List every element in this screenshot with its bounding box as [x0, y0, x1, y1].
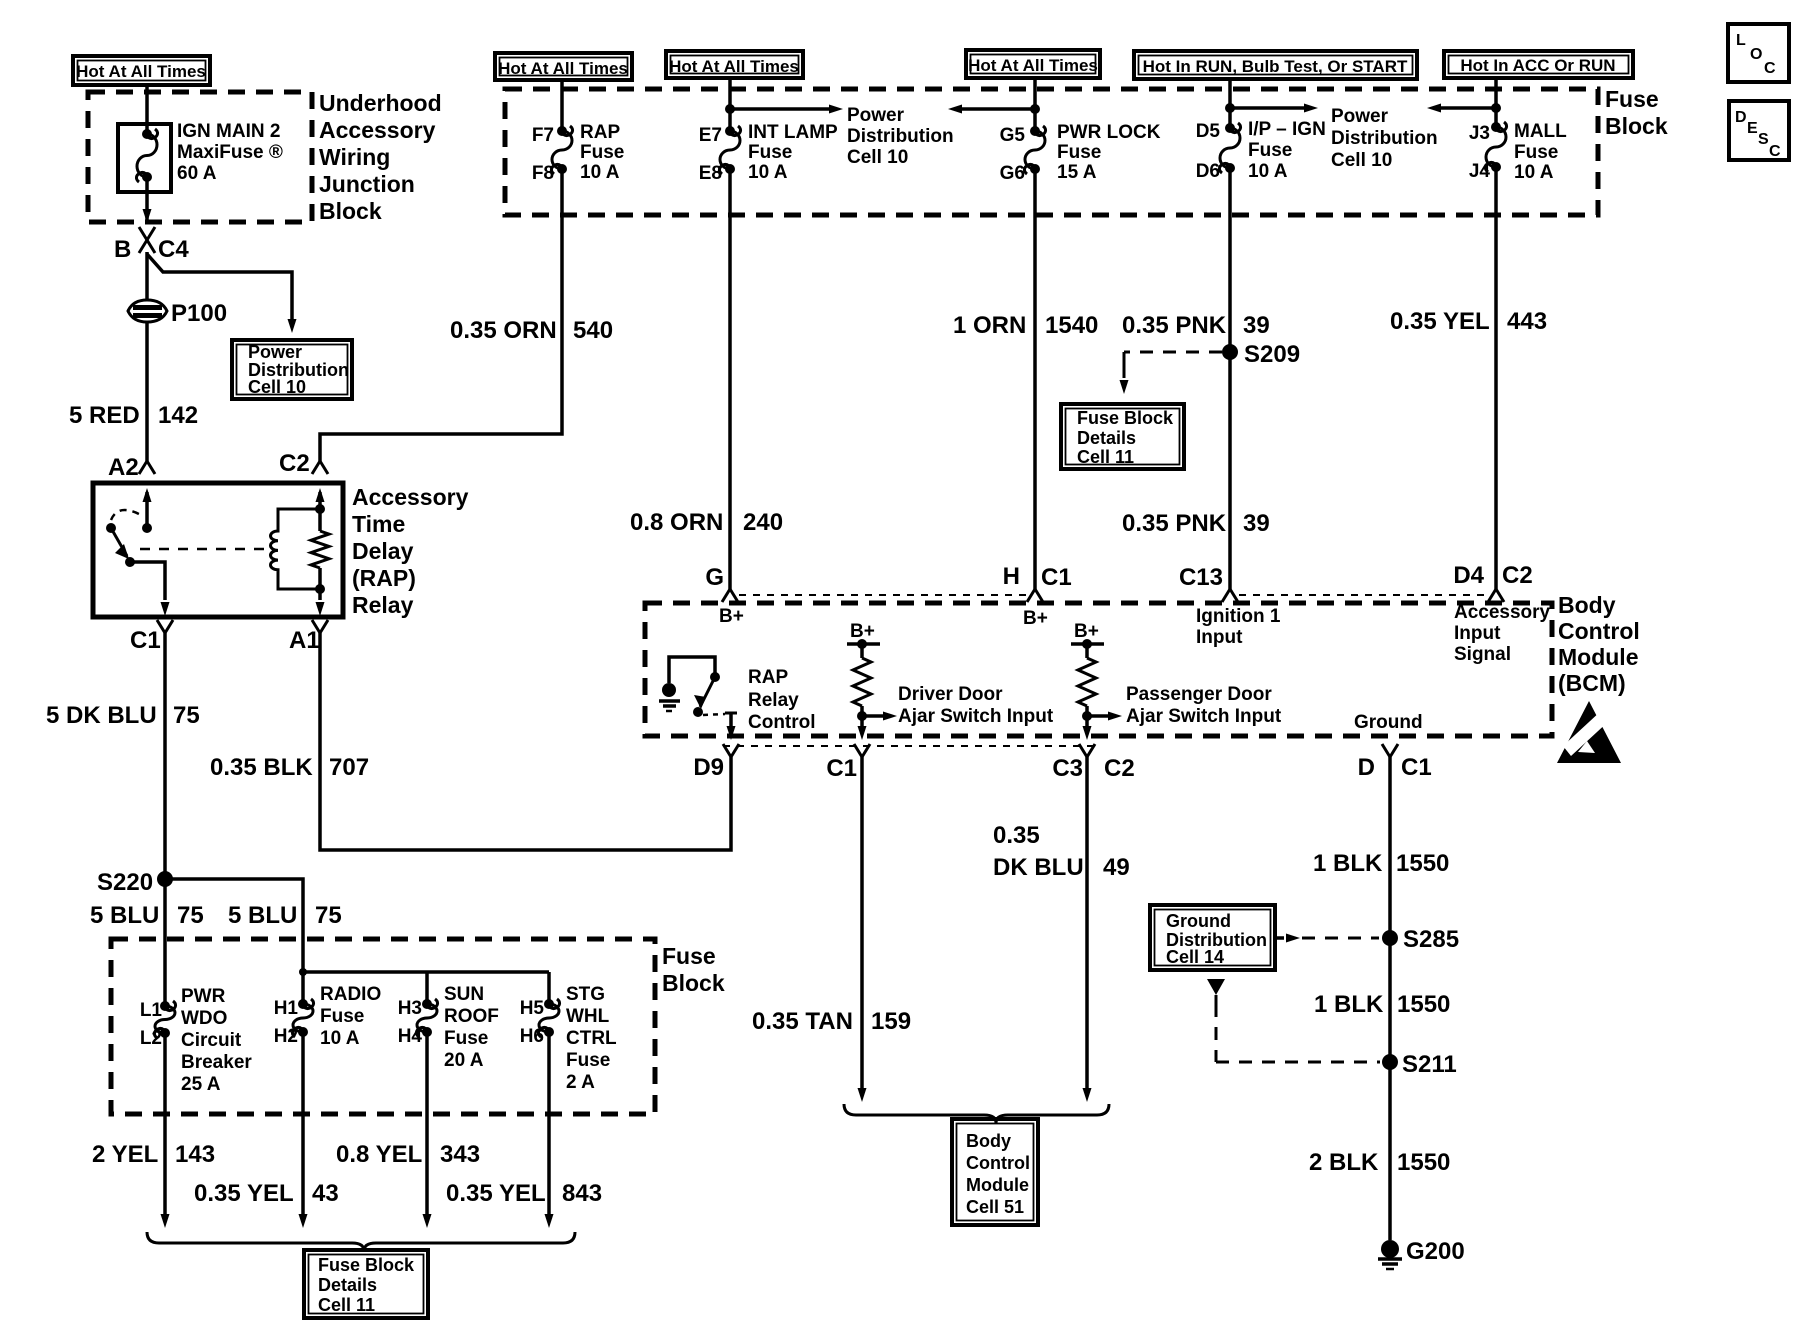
svg-text:Fuse: Fuse — [1057, 142, 1101, 163]
svg-text:Distribution: Distribution — [847, 126, 954, 147]
wire 1 BLK 1550: BCM D to S285 — [1388, 757, 1392, 1240]
splice S211 — [1382, 1054, 1398, 1070]
body control module dashed box — [645, 603, 1552, 736]
svg-text:H4: H4 — [398, 1026, 423, 1047]
svg-text:J3: J3 — [1469, 123, 1490, 144]
fuse RAP 10A F7/F8 — [551, 126, 572, 174]
BCM bottom connector forks D9 C1 C3 D — [723, 745, 1096, 747]
svg-text:E: E — [1747, 120, 1758, 137]
svg-text:143: 143 — [175, 1141, 215, 1168]
brace for fuse block outputs — [147, 1232, 575, 1251]
svg-text:C1: C1 — [130, 627, 161, 654]
svg-text:B+: B+ — [719, 606, 744, 627]
svg-text:C: C — [1764, 60, 1776, 77]
connector: relay terminal A2 — [139, 461, 155, 474]
svg-text:Junction: Junction — [319, 171, 415, 197]
svg-text:G6: G6 — [1000, 163, 1025, 184]
svg-text:E7: E7 — [699, 125, 722, 146]
svg-text:Body: Body — [1558, 592, 1616, 618]
svg-text:C2: C2 — [1104, 755, 1135, 782]
svg-text:843: 843 — [562, 1180, 602, 1207]
relay: switch output to C1 — [130, 562, 165, 600]
svg-text:J4: J4 — [1469, 161, 1491, 182]
svg-text:Fuse: Fuse — [1248, 140, 1292, 161]
svg-text:Wiring: Wiring — [319, 144, 390, 170]
svg-text:5 BLU: 5 BLU — [90, 902, 159, 929]
svg-text:Cell 51: Cell 51 — [966, 1197, 1024, 1217]
svg-text:MaxiFuse ®: MaxiFuse ® — [177, 142, 283, 163]
svg-text:D5: D5 — [1196, 121, 1221, 142]
fuse bus inside fuse block — [303, 970, 549, 974]
svg-text:43: 43 — [312, 1180, 339, 1207]
svg-text:H: H — [1003, 563, 1020, 590]
BCM connector dashed lines (top) — [739, 594, 1027, 596]
BCM connector forks G H C13 D4 — [722, 589, 738, 602]
svg-text:C13: C13 — [1179, 564, 1223, 591]
LOC box — [1728, 24, 1789, 82]
arrow and dashed line to S285 — [1275, 936, 1284, 940]
svg-text:5 DK BLU: 5 DK BLU — [46, 702, 157, 729]
svg-text:SUN: SUN — [444, 984, 484, 1005]
svg-text:Fuse: Fuse — [580, 142, 624, 163]
svg-text:0.35 PNK: 0.35 PNK — [1122, 510, 1227, 537]
svg-text:Fuse Block: Fuse Block — [318, 1255, 415, 1275]
svg-text:INT LAMP: INT LAMP — [748, 122, 838, 143]
svg-text:540: 540 — [573, 317, 613, 344]
wire: to INT LAMP fuse with branch to power distribution — [728, 78, 732, 131]
svg-text:0.8 ORN: 0.8 ORN — [630, 509, 723, 536]
reference box: Fuse Block Details Cell 11 (upper) — [1061, 404, 1184, 469]
svg-text:S285: S285 — [1403, 926, 1459, 953]
wire: C4 down to relay A2 — [145, 252, 149, 461]
svg-text:Hot At All Times: Hot At All Times — [498, 59, 628, 78]
svg-text:H6: H6 — [520, 1026, 544, 1047]
svg-text:H2: H2 — [274, 1026, 298, 1047]
wire 0.35 BLK 707: relay A1 to BCM D9 — [320, 633, 731, 850]
svg-text:707: 707 — [329, 754, 369, 781]
relay: coil to A1 exit — [318, 589, 322, 600]
svg-text:Underhood: Underhood — [319, 90, 442, 116]
svg-text:Delay: Delay — [352, 538, 414, 564]
svg-text:H3: H3 — [398, 998, 422, 1019]
wire 0.35 YEL 443: MALL fuse to BCM D4/C2 — [1494, 167, 1498, 589]
svg-text:Block: Block — [662, 970, 725, 996]
svg-text:Hot In ACC Or RUN: Hot In ACC Or RUN — [1460, 56, 1615, 75]
DESC box — [1729, 101, 1789, 160]
reference box: Power Distribution Cell 10 — [232, 340, 352, 399]
wire: Hot At All Times to IGN MAIN 2 MaxiFuse — [145, 85, 149, 134]
svg-text:Ajar Switch Input: Ajar Switch Input — [898, 706, 1054, 727]
svg-text:0.8 YEL: 0.8 YEL — [336, 1141, 422, 1168]
svg-text:Ground: Ground — [1354, 712, 1423, 733]
relay: switch pivot and blade — [106, 523, 116, 533]
svg-text:C2: C2 — [279, 450, 310, 477]
svg-text:0.35: 0.35 — [993, 822, 1040, 849]
svg-text:Cell 11: Cell 11 — [318, 1295, 375, 1315]
wire: to MALL fuse with branch arrow — [1494, 78, 1498, 127]
fuse RADIO 10A H1/H2 — [292, 999, 313, 1037]
brace for BCM outputs — [844, 1104, 1109, 1123]
relay: resistor — [318, 509, 322, 531]
svg-text:B+: B+ — [1074, 621, 1099, 642]
svg-text:0.35 BLK: 0.35 BLK — [210, 754, 313, 781]
svg-text:Power: Power — [847, 105, 905, 126]
svg-text:25 A: 25 A — [181, 1074, 221, 1095]
dashed reference to S211 — [1207, 979, 1225, 995]
connector C4 terminal B (X symbol) — [139, 227, 155, 240]
svg-text:Ajar Switch Input: Ajar Switch Input — [1126, 706, 1282, 727]
connector: relay terminal A1 — [312, 620, 328, 633]
svg-text:C1: C1 — [1401, 754, 1432, 781]
wire 0.35 YEL 43 to arrow — [301, 1032, 305, 1214]
svg-text:Body: Body — [966, 1131, 1011, 1151]
svg-text:49: 49 — [1103, 854, 1130, 881]
svg-text:10 A: 10 A — [320, 1028, 360, 1049]
svg-text:Accessory: Accessory — [1454, 602, 1551, 623]
svg-text:Fuse: Fuse — [444, 1028, 488, 1049]
svg-text:Input: Input — [1196, 627, 1243, 648]
svg-text:Cell 10: Cell 10 — [847, 147, 908, 168]
svg-text:PWR LOCK: PWR LOCK — [1057, 122, 1161, 143]
relay: coil — [315, 504, 325, 514]
svg-text:Fuse: Fuse — [566, 1050, 610, 1071]
underhood accessory wiring junction block (dashed) — [88, 92, 312, 222]
svg-text:10 A: 10 A — [1248, 161, 1288, 182]
svg-text:10 A: 10 A — [1514, 162, 1554, 183]
svg-text:C3: C3 — [1052, 755, 1083, 782]
svg-text:PWR: PWR — [181, 986, 226, 1007]
label box: Hot At All Times (PWR LOCK fuse) — [966, 50, 1100, 78]
svg-text:Time: Time — [352, 511, 405, 537]
wire branch to Power Distribution Cell 10 — [147, 254, 292, 324]
accessory time delay RAP relay box — [93, 483, 343, 617]
svg-text:Details: Details — [1077, 428, 1136, 448]
svg-text:F7: F7 — [532, 125, 554, 146]
reference box: Fuse Block Details Cell 11 (lower) — [304, 1250, 428, 1318]
label box: Hot In RUN, Bulb Test, Or START — [1134, 51, 1417, 79]
svg-text:P100: P100 — [171, 300, 227, 327]
ESD symbol — [1557, 701, 1621, 763]
wire 0.8 YEL 343 to arrow — [425, 1032, 429, 1214]
maxifuse IGN MAIN 2 60 A — [118, 124, 171, 192]
fuse MALL 10A J3/J4 — [1485, 122, 1506, 172]
splice S209 — [1222, 344, 1238, 360]
svg-text:1 BLK: 1 BLK — [1314, 991, 1384, 1018]
svg-text:D: D — [1358, 754, 1375, 781]
svg-text:Distribution: Distribution — [1331, 128, 1438, 149]
svg-text:IGN MAIN 2: IGN MAIN 2 — [177, 121, 280, 142]
svg-text:Fuse: Fuse — [1514, 142, 1558, 163]
svg-text:240: 240 — [743, 509, 783, 536]
svg-text:60 A: 60 A — [177, 163, 217, 184]
svg-text:Fuse: Fuse — [320, 1006, 364, 1027]
svg-text:RAP: RAP — [580, 122, 620, 143]
BCM RAP relay control switch — [669, 657, 715, 683]
svg-text:5 BLU: 5 BLU — [228, 902, 297, 929]
wire: S220 branch to radio fuse bus — [165, 879, 303, 1004]
splice S220 — [157, 871, 173, 887]
svg-text:Driver Door: Driver Door — [898, 684, 1003, 705]
svg-text:75: 75 — [315, 902, 342, 929]
svg-text:Fuse: Fuse — [662, 943, 716, 969]
svg-text:O: O — [1750, 46, 1762, 63]
svg-text:Input: Input — [1454, 623, 1501, 644]
fuse block (dashed box, bottom left) — [111, 939, 655, 1114]
svg-text:C4: C4 — [158, 236, 189, 263]
svg-text:D9: D9 — [693, 754, 724, 781]
svg-text:0.35 YEL: 0.35 YEL — [446, 1180, 546, 1207]
wire: S220 down to PWR WDO breaker — [163, 879, 167, 1006]
svg-text:MALL: MALL — [1514, 121, 1567, 142]
svg-text:(BCM): (BCM) — [1558, 670, 1626, 696]
fuse PWR LOCK 15A G5/G6 — [1024, 126, 1045, 174]
svg-text:(RAP): (RAP) — [352, 565, 416, 591]
wire 0.35 PNK 39: I/P-IGN fuse to BCM C13 via S209 — [1228, 168, 1232, 589]
svg-text:Accessory: Accessory — [319, 117, 436, 143]
svg-text:Signal: Signal — [1454, 644, 1511, 665]
svg-text:0.35 YEL: 0.35 YEL — [1390, 308, 1490, 335]
wire 0.8 ORN 240: INT LAMP fuse to BCM G — [728, 169, 732, 589]
svg-text:G200: G200 — [1406, 1238, 1465, 1265]
svg-text:Module: Module — [1558, 644, 1639, 670]
svg-text:Block: Block — [319, 198, 382, 224]
svg-text:C2: C2 — [1502, 562, 1533, 589]
svg-text:D6: D6 — [1196, 161, 1220, 182]
svg-text:G5: G5 — [1000, 125, 1026, 146]
svg-text:15 A: 15 A — [1057, 162, 1097, 183]
wire 0.35 YEL 843 to arrow — [547, 1032, 551, 1214]
svg-text:0.35 YEL: 0.35 YEL — [194, 1180, 294, 1207]
svg-text:443: 443 — [1507, 308, 1547, 335]
svg-text:20 A: 20 A — [444, 1050, 484, 1071]
svg-text:Control: Control — [1558, 618, 1640, 644]
svg-text:B+: B+ — [850, 621, 875, 642]
svg-text:Breaker: Breaker — [181, 1052, 252, 1073]
reference box: Ground Distribution Cell 14 — [1150, 905, 1275, 970]
svg-text:Power: Power — [1331, 106, 1389, 127]
connector: relay terminal C2 — [312, 461, 328, 474]
svg-text:75: 75 — [177, 902, 204, 929]
svg-text:142: 142 — [158, 402, 198, 429]
svg-text:Power: Power — [248, 342, 302, 362]
svg-text:L: L — [1736, 32, 1746, 49]
svg-text:10 A: 10 A — [580, 162, 620, 183]
svg-text:Accessory: Accessory — [352, 484, 469, 510]
svg-text:CTRL: CTRL — [566, 1028, 617, 1049]
svg-text:Fuse Block: Fuse Block — [1077, 408, 1174, 428]
svg-text:H1: H1 — [274, 998, 299, 1019]
svg-text:1550: 1550 — [1396, 850, 1449, 877]
circuit breaker PWR WDO 25A L1/L2 — [154, 1001, 175, 1038]
svg-text:1550: 1550 — [1397, 991, 1450, 1018]
svg-text:Control: Control — [748, 712, 816, 733]
svg-text:Cell 14: Cell 14 — [1166, 947, 1224, 967]
svg-text:I/P – IGN: I/P – IGN — [1248, 119, 1326, 140]
fuse STG WHL CTRL 2A H5/H6 — [538, 999, 559, 1037]
wire 2 YEL 143 to arrow — [163, 1033, 167, 1214]
wire 5 DK BLU 75: relay C1 to S220 — [163, 633, 167, 874]
svg-text:D: D — [1735, 109, 1747, 126]
ground G200 — [1381, 1240, 1399, 1258]
svg-text:Fuse: Fuse — [748, 142, 792, 163]
wire: to RAP fuse — [560, 80, 564, 131]
svg-text:10 A: 10 A — [748, 162, 788, 183]
svg-text:ROOF: ROOF — [444, 1006, 499, 1027]
svg-text:WDO: WDO — [181, 1008, 227, 1029]
svg-text:C1: C1 — [1041, 564, 1072, 591]
svg-text:D4: D4 — [1453, 562, 1484, 589]
wire: to PWR LOCK fuse with branch arrow — [1033, 78, 1037, 131]
svg-text:1550: 1550 — [1397, 1149, 1450, 1176]
wire: maxifuse down to connector C4 terminal B — [145, 177, 149, 224]
label box: Hot In ACC Or RUN — [1444, 51, 1633, 78]
svg-text:RADIO: RADIO — [320, 984, 381, 1005]
svg-text:RAP: RAP — [748, 667, 788, 688]
svg-text:75: 75 — [173, 702, 200, 729]
svg-text:L1: L1 — [140, 1000, 163, 1021]
relay: mechanical link dashes — [140, 548, 264, 551]
svg-text:B: B — [114, 236, 131, 263]
svg-text:Ground: Ground — [1166, 911, 1231, 931]
svg-text:H5: H5 — [520, 998, 545, 1019]
wire 1 ORN 1540: PWR LOCK fuse to BCM H — [1033, 169, 1037, 589]
svg-text:1540: 1540 — [1045, 312, 1098, 339]
svg-text:S209: S209 — [1244, 341, 1300, 368]
svg-text:5 RED: 5 RED — [69, 402, 140, 429]
svg-text:39: 39 — [1243, 510, 1270, 537]
svg-text:0.35 ORN: 0.35 ORN — [450, 317, 557, 344]
svg-text:Hot At All Times: Hot At All Times — [76, 62, 206, 81]
svg-text:Cell 10: Cell 10 — [1331, 150, 1392, 171]
splice S285 — [1382, 930, 1398, 946]
svg-text:Hot At All Times: Hot At All Times — [968, 56, 1098, 75]
svg-text:2 YEL: 2 YEL — [92, 1141, 158, 1168]
svg-text:Block: Block — [1605, 113, 1668, 139]
svg-text:A1: A1 — [289, 627, 320, 654]
svg-text:A2: A2 — [108, 454, 139, 481]
relay: A2 feed arrow and fixed contact — [145, 492, 149, 528]
wire 0.35 DK BLU 49: BCM C3 to body control module cell 51 — [1085, 757, 1089, 1088]
grommet P100 — [128, 300, 167, 322]
svg-text:159: 159 — [871, 1008, 911, 1035]
relay: C2 feed arrow — [318, 492, 322, 509]
svg-text:Module: Module — [966, 1175, 1029, 1195]
connector: relay terminal C1 — [157, 620, 173, 633]
svg-text:E8: E8 — [699, 163, 722, 184]
svg-text:S: S — [1758, 131, 1769, 148]
svg-text:Relay: Relay — [748, 690, 799, 711]
svg-text:Relay: Relay — [352, 592, 414, 618]
svg-text:Hot In RUN, Bulb Test, Or STAR: Hot In RUN, Bulb Test, Or START — [1143, 57, 1408, 76]
label box: Hot At All Times (RAP fuse) — [495, 53, 632, 80]
svg-text:2 BLK: 2 BLK — [1309, 1149, 1379, 1176]
svg-text:Ignition 1: Ignition 1 — [1196, 606, 1281, 627]
svg-text:S220: S220 — [97, 869, 153, 896]
svg-text:S211: S211 — [1402, 1051, 1457, 1078]
svg-text:WHL: WHL — [566, 1006, 610, 1027]
fuse INT LAMP 10A E7/E8 — [719, 126, 740, 174]
svg-text:DK BLU: DK BLU — [993, 854, 1084, 881]
wire 0.35 TAN 159: BCM C1 to body control module cell 51 — [860, 757, 864, 1088]
svg-text:Passenger Door: Passenger Door — [1126, 684, 1272, 705]
svg-text:Cell 11: Cell 11 — [1077, 447, 1134, 467]
wire: to I/P-IGN fuse with branch to power distribution — [1228, 79, 1232, 128]
svg-text:Details: Details — [318, 1275, 377, 1295]
label box: Hot At All Times (INT LAMP fuse) — [666, 51, 803, 78]
svg-text:0.35 PNK: 0.35 PNK — [1122, 312, 1227, 339]
svg-text:0.35 TAN: 0.35 TAN — [752, 1008, 853, 1035]
dashed link and D9 output — [703, 714, 725, 715]
svg-text:1 ORN: 1 ORN — [953, 312, 1026, 339]
svg-text:39: 39 — [1243, 312, 1270, 339]
svg-text:Hot At All Times: Hot At All Times — [669, 57, 799, 76]
reference box: Body Control Module Cell 51 — [952, 1119, 1038, 1225]
svg-text:1 BLK: 1 BLK — [1313, 850, 1383, 877]
svg-text:B+: B+ — [1023, 608, 1048, 629]
dashed reference from S209 to fuse block details — [1124, 351, 1222, 354]
fuse SUN ROOF 20A H3/H4 — [416, 999, 437, 1037]
svg-text:343: 343 — [440, 1141, 480, 1168]
BCM internal ground — [662, 683, 676, 697]
svg-text:Cell 10: Cell 10 — [248, 377, 306, 397]
fuse I/P-IGN 10A D5/D6 — [1219, 123, 1240, 173]
label box: Hot At All Times (IGN MAIN 2) — [73, 56, 210, 85]
svg-text:C: C — [1769, 143, 1781, 160]
wire 0.35 ORN 540: RAP fuse to relay C2 — [320, 169, 562, 461]
svg-text:G: G — [705, 564, 724, 591]
svg-text:2 A: 2 A — [566, 1072, 595, 1093]
svg-text:Circuit: Circuit — [181, 1030, 242, 1051]
svg-text:L2: L2 — [140, 1028, 162, 1049]
fuse block (dashed box, top) — [505, 89, 1598, 215]
svg-text:Control: Control — [966, 1153, 1030, 1173]
svg-text:F8: F8 — [532, 163, 554, 184]
svg-text:Fuse: Fuse — [1605, 86, 1659, 112]
svg-text:STG: STG — [566, 984, 605, 1005]
svg-text:C1: C1 — [826, 755, 857, 782]
